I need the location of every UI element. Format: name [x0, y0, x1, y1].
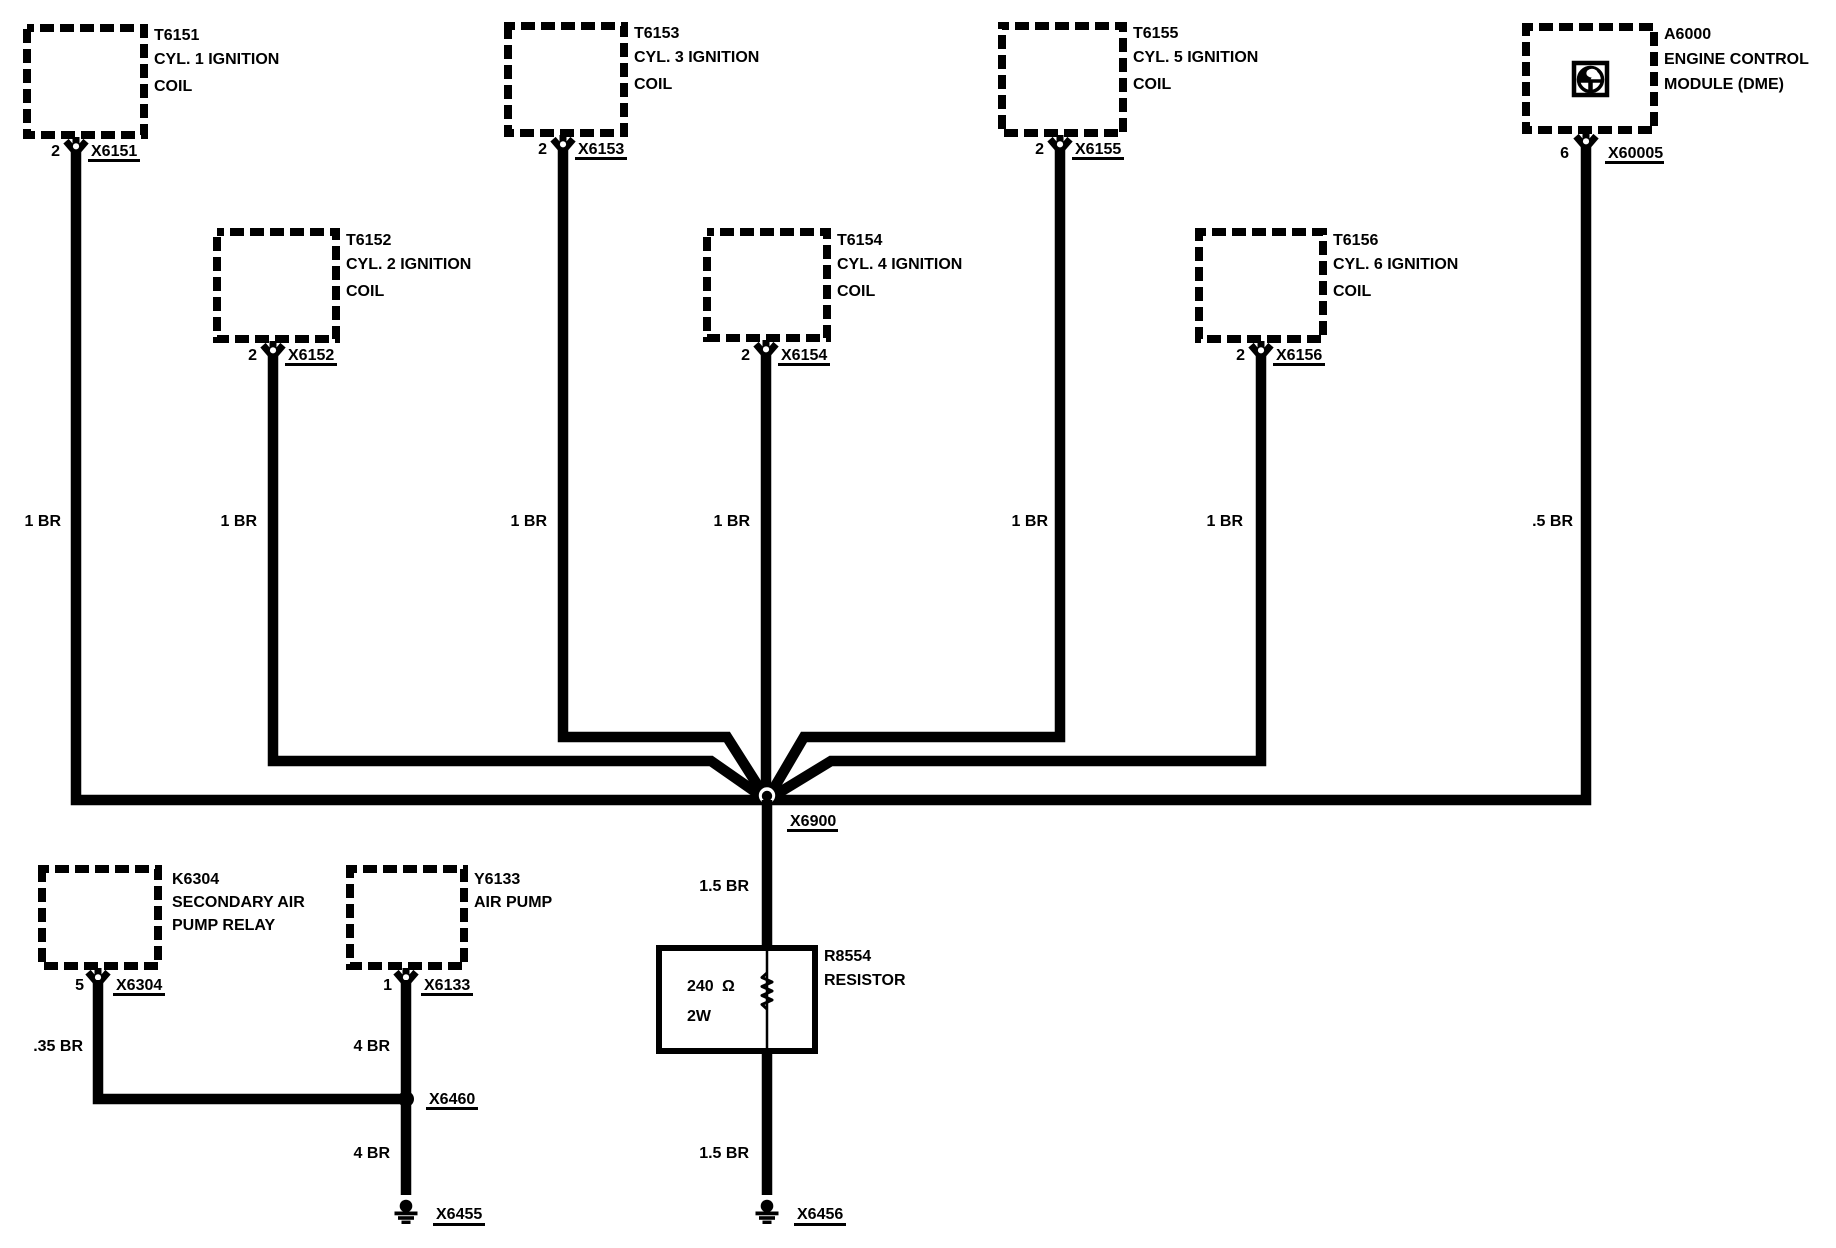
svg-text:5: 5 — [75, 977, 84, 994]
svg-text:X6154: X6154 — [781, 347, 827, 364]
box T6155 — [1002, 26, 1123, 133]
pin 2 connector X6153 — [553, 135, 573, 150]
svg-text:2: 2 — [741, 347, 750, 364]
svg-text:1 BR: 1 BR — [511, 513, 548, 530]
svg-text:X6152: X6152 — [288, 347, 334, 364]
svg-text:1 BR: 1 BR — [714, 513, 751, 530]
box T6152 — [217, 232, 336, 339]
svg-text:COIL: COIL — [634, 76, 672, 93]
svg-text:2: 2 — [1236, 347, 1245, 364]
svg-text:T6153: T6153 — [634, 25, 679, 42]
svg-text:1 BR: 1 BR — [1012, 513, 1049, 530]
wire T6154 pin to junction X6900 (1 BR) — [761, 353, 772, 800]
wire X6900 to resistor R8554 (1.5 BR) — [762, 800, 773, 948]
svg-text:.5 BR: .5 BR — [1532, 513, 1573, 530]
pin 2 connector X6155 — [1050, 135, 1070, 150]
svg-text:Ω: Ω — [722, 978, 735, 995]
wire T6151 pin to junction X6900 (1 BR) — [76, 149, 767, 800]
svg-text:X6151: X6151 — [91, 143, 137, 160]
svg-text:X6153: X6153 — [578, 141, 624, 158]
box A6000 engine control module — [1526, 27, 1654, 130]
svg-text:X60005: X60005 — [1608, 145, 1663, 162]
svg-text:240: 240 — [687, 978, 714, 995]
svg-text:CYL. 3 IGNITION: CYL. 3 IGNITION — [634, 49, 759, 66]
svg-text:1 BR: 1 BR — [1207, 513, 1244, 530]
pin 2 connector X6151 — [66, 137, 86, 152]
svg-text:X6155: X6155 — [1075, 141, 1121, 158]
box K6304 secondary air pump relay — [42, 869, 158, 966]
svg-text:CYL. 2 IGNITION: CYL. 2 IGNITION — [346, 256, 471, 273]
svg-text:ENGINE CONTROL: ENGINE CONTROL — [1664, 51, 1809, 68]
svg-text:SECONDARY AIR: SECONDARY AIR — [172, 894, 305, 911]
svg-text:COIL: COIL — [346, 283, 384, 300]
svg-text:Y6133: Y6133 — [474, 871, 520, 888]
box T6156 — [1199, 232, 1323, 339]
svg-text:2W: 2W — [687, 1008, 712, 1025]
svg-text:X6460: X6460 — [429, 1091, 475, 1108]
svg-text:1.5 BR: 1.5 BR — [699, 1145, 749, 1162]
svg-text:X6304: X6304 — [116, 977, 162, 994]
svg-text:2: 2 — [248, 347, 257, 364]
ground X6456 — [756, 1200, 779, 1224]
svg-text:X6900: X6900 — [790, 813, 836, 830]
svg-text:1 BR: 1 BR — [221, 513, 258, 530]
svg-text:R8554: R8554 — [824, 948, 871, 965]
box T6154 — [707, 232, 827, 338]
resistor R8554 box — [659, 948, 815, 1051]
svg-text:1 BR: 1 BR — [25, 513, 62, 530]
svg-text:1.5 BR: 1.5 BR — [699, 878, 749, 895]
svg-text:T6156: T6156 — [1333, 232, 1378, 249]
node X6460 — [398, 1091, 414, 1107]
svg-text:T6152: T6152 — [346, 232, 391, 249]
svg-text:X6455: X6455 — [436, 1206, 482, 1223]
svg-text:1: 1 — [383, 977, 392, 994]
DME icon — [1574, 63, 1607, 95]
svg-text:2: 2 — [51, 143, 60, 160]
svg-text:A6000: A6000 — [1664, 26, 1711, 43]
svg-text:X6156: X6156 — [1276, 347, 1322, 364]
box Y6133 air pump — [350, 869, 464, 966]
wire T6153 pin to junction X6900 (1 BR) — [563, 147, 767, 800]
node X6900 junction — [759, 787, 775, 803]
wire T6155 pin to junction X6900 (1 BR) — [767, 147, 1060, 800]
svg-text:COIL: COIL — [1333, 283, 1371, 300]
svg-text:X6133: X6133 — [424, 977, 470, 994]
pin 5 connector X6304 — [88, 968, 108, 983]
svg-text:CYL. 6 IGNITION: CYL. 6 IGNITION — [1333, 256, 1458, 273]
svg-text:T6154: T6154 — [837, 232, 882, 249]
svg-text:4 BR: 4 BR — [354, 1038, 391, 1055]
svg-text:COIL: COIL — [837, 283, 875, 300]
svg-text:T6155: T6155 — [1133, 25, 1178, 42]
svg-text:PUMP RELAY: PUMP RELAY — [172, 917, 275, 934]
wire T6152 pin to junction X6900 (1 BR) — [273, 353, 767, 800]
pin 1 connector X6133 — [396, 968, 416, 983]
svg-text:.35 BR: .35 BR — [33, 1038, 83, 1055]
svg-text:COIL: COIL — [1133, 76, 1171, 93]
svg-text:MODULE (DME): MODULE (DME) — [1664, 76, 1784, 93]
pin 2 connector X6154 — [756, 340, 776, 355]
svg-text:T6151: T6151 — [154, 27, 199, 44]
svg-text:CYL. 5 IGNITION: CYL. 5 IGNITION — [1133, 49, 1258, 66]
pin 2 connector X6152 — [263, 341, 283, 356]
svg-text:RESISTOR: RESISTOR — [824, 972, 906, 989]
resistor element — [766, 948, 769, 1051]
svg-text:AIR PUMP: AIR PUMP — [474, 894, 553, 911]
svg-text:COIL: COIL — [154, 78, 192, 95]
wire Y6133 pin to ground X6455 (4 BR) — [401, 980, 412, 1195]
svg-text:2: 2 — [1035, 141, 1044, 158]
pin 6 connector X60005 — [1576, 132, 1596, 147]
box T6151 — [27, 28, 144, 135]
svg-text:K6304: K6304 — [172, 871, 219, 888]
svg-text:6: 6 — [1560, 145, 1569, 162]
svg-text:X6456: X6456 — [797, 1206, 843, 1223]
pin 2 connector X6156 — [1251, 341, 1271, 356]
box T6153 — [508, 26, 624, 133]
wire K6304 pin to node X6460 (.35 BR) — [98, 980, 406, 1099]
ground X6455 — [395, 1200, 418, 1224]
wire T6156 pin to junction X6900 (1 BR) — [767, 353, 1261, 800]
svg-text:CYL. 4 IGNITION: CYL. 4 IGNITION — [837, 256, 962, 273]
wire A6000 pin to junction X6900 (.5 BR) — [767, 144, 1586, 800]
wire resistor to ground X6456 (1.5 BR) — [762, 1051, 773, 1195]
svg-text:4 BR: 4 BR — [354, 1145, 391, 1162]
svg-text:2: 2 — [538, 141, 547, 158]
svg-text:CYL. 1 IGNITION: CYL. 1 IGNITION — [154, 51, 279, 68]
